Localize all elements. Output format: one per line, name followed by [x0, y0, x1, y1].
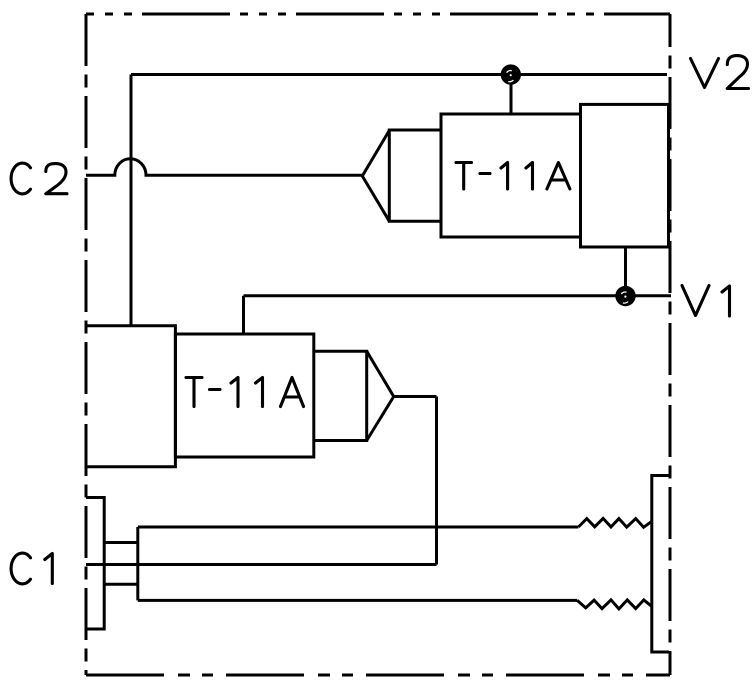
- wire stem from V1 line down to valve U2 body: [242, 296, 245, 334]
- end bar plate (right): [652, 476, 669, 653]
- rod left end: [136, 527, 139, 600]
- node V2 junction dot: [501, 64, 521, 84]
- wire C2 horizontal with crossover hop: [86, 159, 362, 176]
- rod lower line: [138, 599, 577, 602]
- spring upper (zigzag): [578, 518, 651, 527]
- wire horizontal V1 line: [244, 294, 672, 297]
- valve U1 nose cone: [362, 131, 389, 222]
- wire from valve U2 cone apex: [394, 395, 437, 398]
- label C1: [11, 553, 52, 584]
- wire stem from valve U1 adapter down to node V1: [624, 247, 627, 296]
- valve U1 nose rectangle: [389, 130, 441, 221]
- valve U2 support block (open left on border): [86, 326, 175, 467]
- bracket to rod connector lower: [104, 583, 138, 586]
- node V1 junction dot: [615, 286, 635, 306]
- label V2: [691, 56, 749, 89]
- valve U2 nose rectangle: [314, 351, 367, 440]
- wire stem from node V2 to valve U1 body: [510, 75, 513, 115]
- bracket to rod connector upper: [104, 541, 138, 544]
- spring lower (zigzag): [577, 600, 652, 609]
- enclosure border right (phantom line): [669, 14, 672, 675]
- label T-11A (valve U1): [456, 163, 570, 190]
- enclosure border left (phantom line): [85, 14, 88, 675]
- label V1: [682, 286, 730, 317]
- wire vertical from apex wire down to C1 center line: [435, 397, 438, 565]
- label C2: [11, 163, 67, 194]
- valve U2 body (T-11A cartridge): [175, 334, 313, 457]
- enclosure border top (phantom line): [86, 13, 670, 16]
- label T-11A (valve U2): [186, 378, 304, 407]
- cylinder left bracket (open left on border): [86, 498, 104, 630]
- valve U1 body (T-11A cartridge): [441, 114, 581, 237]
- wire vertical from top wire down to lower support block: [130, 75, 133, 327]
- C1 center line: [86, 563, 437, 566]
- enclosure border bottom (phantom line): [86, 674, 670, 677]
- wire top horizontal to V2: [131, 73, 667, 76]
- valve U1 adapter block: [581, 104, 669, 247]
- rod upper line: [138, 526, 579, 529]
- valve U2 nose cone: [367, 351, 394, 440]
